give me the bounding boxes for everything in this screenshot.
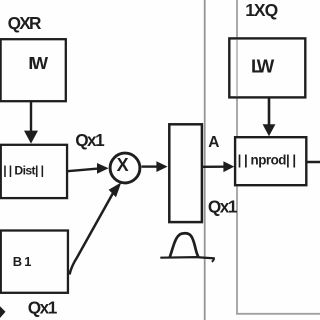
svg-text:Qx1: Qx1 <box>28 297 58 317</box>
arrowhead into nprod <box>223 161 234 172</box>
weight box IW <box>1 39 66 101</box>
wire X to radbas <box>142 165 158 167</box>
svg-text:A: A <box>208 134 219 151</box>
svg-text:X: X <box>117 155 129 175</box>
svg-text:QXR: QXR <box>8 13 42 33</box>
multiply circle X <box>110 153 140 183</box>
layer-2 border segment through LW <box>236 40 238 97</box>
wire radbas to nprod <box>203 165 225 168</box>
layer-2 outer border <box>237 0 320 314</box>
bell curve baseline hook <box>212 258 214 261</box>
arrowhead into Dist <box>24 131 38 144</box>
bias box B1 <box>1 231 68 293</box>
box Dist <box>1 145 67 198</box>
bell curve hump <box>170 233 199 257</box>
svg-text:| | Dist| |: | | Dist| | <box>3 163 43 177</box>
wire Dist to X <box>68 169 99 172</box>
svg-text:Qx1: Qx1 <box>75 130 105 150</box>
arrowhead into nprod top <box>263 124 276 136</box>
arrowhead into X bottom <box>109 182 122 197</box>
wire B1 to X diagonal <box>70 190 116 275</box>
svg-text:B1: B1 <box>13 254 34 269</box>
bell curve baseline <box>160 257 215 258</box>
cropped arrow fragment bottom-left <box>0 306 6 318</box>
svg-text:1XQ: 1XQ <box>245 0 277 20</box>
arrowhead into radbas <box>156 161 167 172</box>
arrowhead into X <box>97 163 109 174</box>
wire LW to nprod <box>268 98 271 125</box>
layer divider line <box>204 0 206 320</box>
radbas transfer block <box>169 124 202 222</box>
svg-text:Qx1: Qx1 <box>208 196 238 216</box>
svg-text:IW: IW <box>28 53 48 73</box>
wire IW to Dist <box>30 101 32 132</box>
box nprod <box>235 137 306 185</box>
svg-text:| | nprod| |: | | nprod| | <box>238 152 296 167</box>
wire nprod output <box>307 161 320 164</box>
weight box LW <box>229 38 305 97</box>
